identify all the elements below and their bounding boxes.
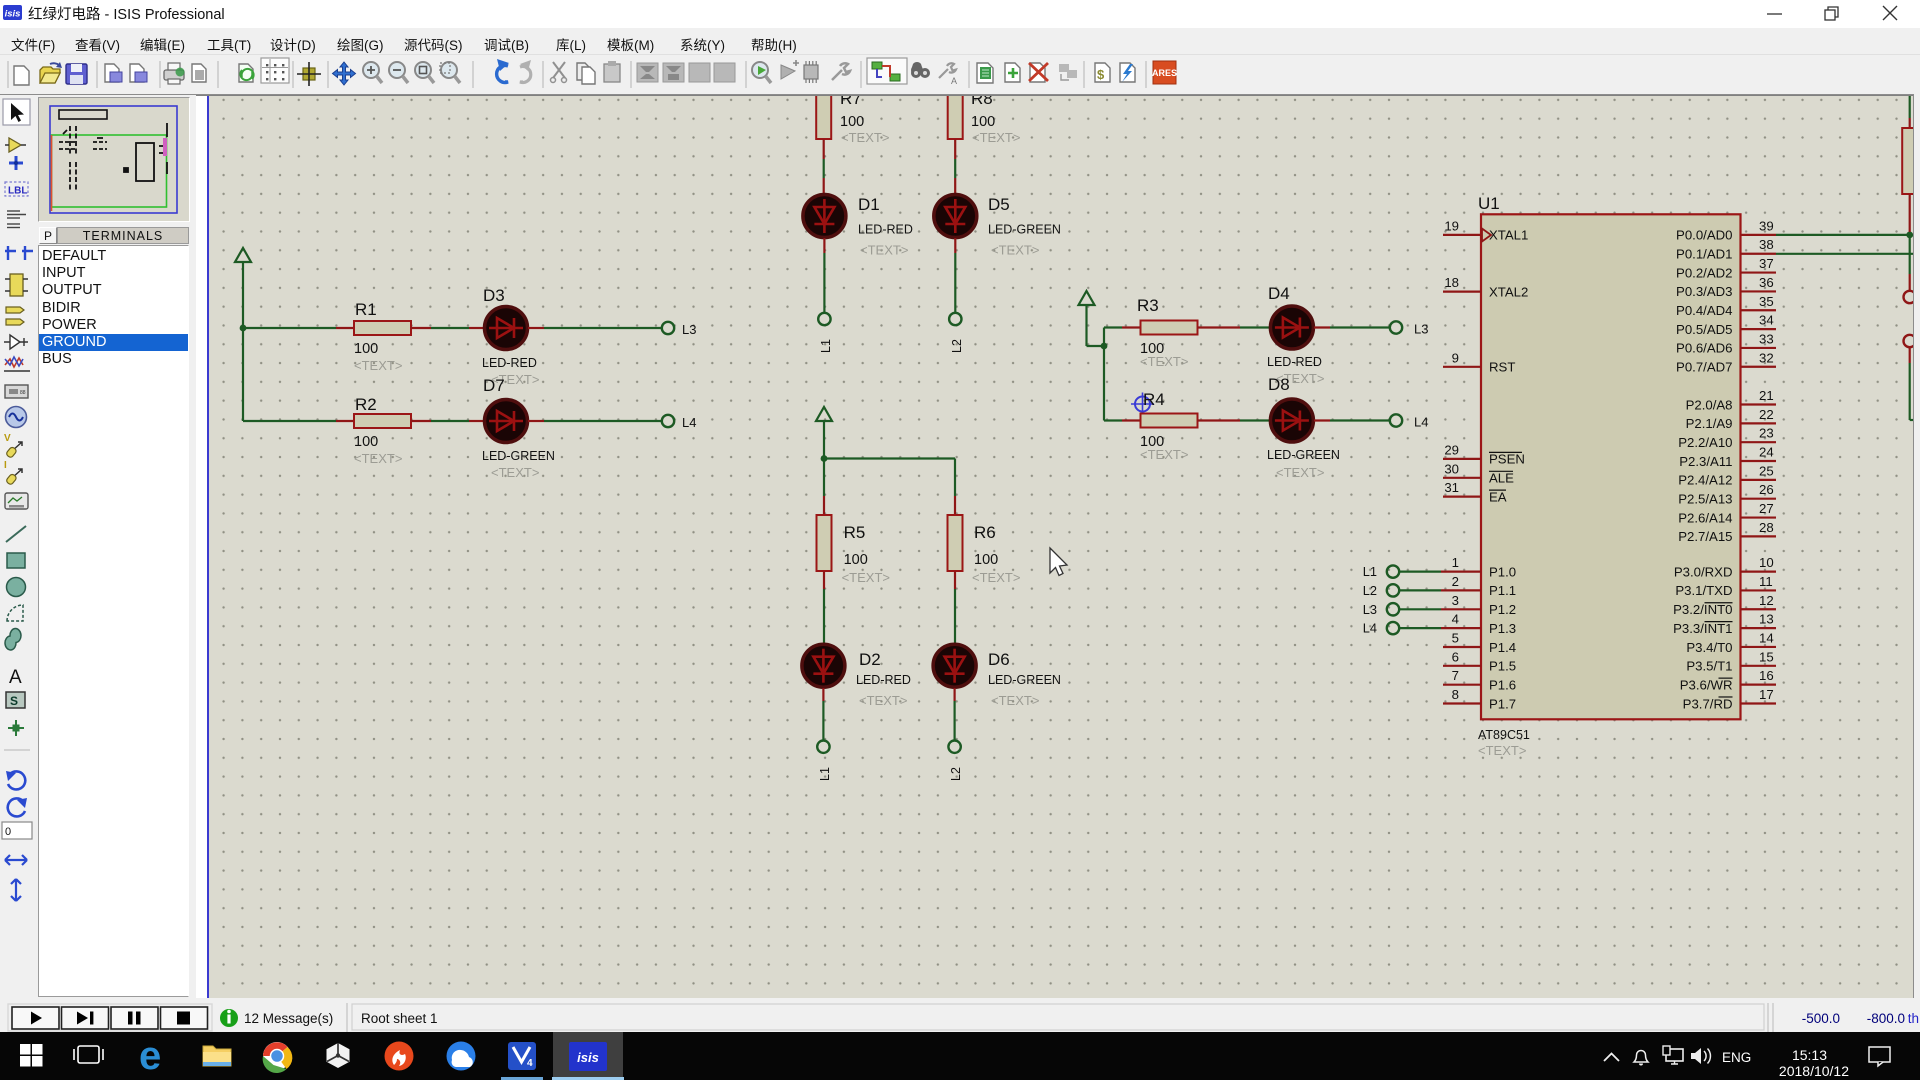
resistor R7 [816, 83, 889, 159]
wire (vertical) power node down to R2 row [243, 328, 336, 421]
svg-text:P3.3/INT1: P3.3/INT1 [1673, 621, 1732, 636]
wire node to R3/R4 rows [1104, 328, 1122, 421]
svg-text:15: 15 [1759, 649, 1774, 664]
svg-text:17: 17 [1759, 687, 1774, 702]
svg-text:3: 3 [1452, 593, 1459, 608]
svg-text:R1: R1 [355, 300, 377, 319]
U1 pin 27 P2.6/A14 [1678, 501, 1776, 525]
U1 pin 8 P1.7 [1443, 687, 1516, 711]
U1 pin 4 P1.3 / terminal L4 [1363, 612, 1516, 636]
svg-text:L1: L1 [1363, 564, 1377, 579]
resistor (top right, partially visible) [1902, 128, 1917, 194]
svg-text:12: 12 [1759, 593, 1774, 608]
U1 pin 35 P0.4/AD4 [1676, 294, 1776, 318]
svg-text:4: 4 [527, 1058, 533, 1069]
wire R2 to D7 [431, 420, 469, 422]
U1 pin 2 P1.1 / terminal L2 [1363, 574, 1516, 598]
svg-text:-500.0: -500.0 [1802, 1011, 1840, 1026]
svg-text:13: 13 [1759, 612, 1774, 627]
svg-text:<TEXT>: <TEXT> [354, 451, 402, 466]
wire R8 to D5 [954, 159, 956, 178]
svg-text:P1.1: P1.1 [1489, 583, 1516, 598]
svg-text:P1.7: P1.7 [1489, 696, 1516, 711]
svg-text:8: 8 [1452, 687, 1459, 702]
svg-text:D2: D2 [859, 650, 881, 669]
svg-text:I: I [4, 460, 7, 471]
svg-text:88: 88 [20, 390, 26, 396]
LED D8 (LED-GREEN) [1267, 375, 1340, 480]
power terminal (right section) [1079, 291, 1095, 346]
U1 pin 30 ALE [1443, 461, 1514, 485]
svg-text:2: 2 [1452, 574, 1459, 589]
wire R4 to D8 [1240, 419, 1270, 421]
wire R1 to D3 [431, 327, 469, 329]
svg-text:XTAL2: XTAL2 [1489, 284, 1528, 299]
svg-text:P2.6/A14: P2.6/A14 [1678, 510, 1732, 525]
svg-text:26: 26 [1759, 482, 1774, 497]
wire R5 to D2 [823, 589, 825, 644]
U1 pin 39 P0.0/AD0 [1676, 218, 1776, 242]
LED D6 (LED-GREEN) [933, 644, 1061, 708]
svg-text:<TEXT>: <TEXT> [991, 243, 1039, 258]
svg-text:S: S [10, 694, 18, 708]
svg-text:EA: EA [1489, 489, 1507, 504]
U1 pin 18 XTAL2 [1443, 275, 1528, 299]
terminal L3 (left section) [662, 322, 697, 337]
svg-text:L2: L2 [1363, 583, 1377, 598]
svg-text:7: 7 [1452, 668, 1459, 683]
resistor R1 [336, 300, 431, 373]
svg-text:LED-RED: LED-RED [482, 356, 537, 370]
svg-text:<TEXT>: <TEXT> [1140, 447, 1188, 462]
wire power to R1 [243, 327, 336, 329]
svg-text:<TEXT>: <TEXT> [1276, 465, 1324, 480]
svg-text:12 Message(s): 12 Message(s) [244, 1011, 333, 1026]
svg-text:P0.0/AD0: P0.0/AD0 [1676, 228, 1732, 243]
svg-text:LED-GREEN: LED-GREEN [988, 223, 1061, 237]
resistor R2 [336, 395, 431, 466]
svg-text:L4: L4 [1363, 621, 1377, 636]
svg-text:P2.4/A12: P2.4/A12 [1678, 473, 1732, 488]
svg-text:P2.0/A8: P2.0/A8 [1686, 397, 1733, 412]
junction (left power node) [240, 325, 247, 332]
wire D7 to terminal L4 [544, 420, 661, 422]
wire D6 to terminal L2 [953, 701, 955, 741]
U1 pin 31 EA [1443, 480, 1507, 504]
wire D8 to terminal L4 [1330, 419, 1390, 421]
U1 pin 5 P1.4 [1443, 631, 1516, 655]
svg-text:22: 22 [1759, 407, 1774, 422]
selection origin marker (blue) at R4 [1131, 393, 1154, 416]
svg-text:<TEXT>: <TEXT> [860, 243, 908, 258]
svg-text:L1: L1 [819, 339, 833, 353]
svg-text:<TEXT>: <TEXT> [1478, 743, 1526, 758]
svg-text:0: 0 [5, 826, 11, 838]
svg-text:<TEXT>: <TEXT> [1140, 354, 1188, 369]
svg-text:21: 21 [1759, 388, 1774, 403]
LED D2 (LED-RED) [802, 644, 911, 708]
U1 pin 28 P2.7/A15 [1678, 520, 1776, 544]
svg-text:$: $ [1097, 67, 1105, 82]
op-amp U1 body (AT89C51 microcontroller) [1478, 194, 1741, 758]
svg-text:R3: R3 [1137, 296, 1159, 315]
svg-text:U1: U1 [1478, 194, 1500, 213]
svg-text:<TEXT>: <TEXT> [491, 465, 539, 480]
svg-text:5: 5 [1452, 631, 1459, 646]
svg-text:4: 4 [1452, 612, 1459, 627]
svg-text:P0.3/AD3: P0.3/AD3 [1676, 284, 1732, 299]
svg-text:16: 16 [1759, 668, 1774, 683]
svg-text:100: 100 [971, 114, 995, 130]
svg-text:isis: isis [5, 9, 21, 20]
svg-text:<TEXT>: <TEXT> [972, 130, 1020, 145]
wire pin 38 to screen edge [1776, 253, 1920, 255]
U1 pin 10 P3.0/RXD [1674, 555, 1776, 579]
svg-text:P1.5: P1.5 [1489, 659, 1516, 674]
svg-text:红绿灯电路 - ISIS Professional: 红绿灯电路 - ISIS Professional [28, 6, 225, 23]
svg-text:P2.7/A15: P2.7/A15 [1678, 529, 1732, 544]
svg-text:D6: D6 [988, 650, 1010, 669]
svg-text:L2: L2 [950, 339, 964, 353]
U1 pin 21 P2.0/A8 [1686, 388, 1776, 412]
svg-text:11: 11 [1759, 574, 1773, 589]
terminal (right edge, upper) [1904, 291, 1916, 303]
svg-text:isis: isis [577, 1050, 599, 1065]
svg-text:P0.1/AD1: P0.1/AD1 [1676, 247, 1732, 262]
svg-text:L4: L4 [682, 415, 696, 430]
svg-text:D5: D5 [988, 195, 1010, 214]
wire resistor to node [1909, 194, 1911, 291]
junction (middle power node) [821, 455, 828, 462]
svg-text:L3: L3 [1363, 602, 1377, 617]
wire D1 to terminal L1 [823, 253, 825, 313]
svg-text:<TEXT>: <TEXT> [991, 693, 1039, 708]
svg-text:P0.7/AD7: P0.7/AD7 [1676, 360, 1732, 375]
svg-text:100: 100 [974, 552, 998, 568]
svg-text:R2: R2 [355, 395, 377, 414]
svg-text:29: 29 [1444, 442, 1459, 457]
U1 pin 23 P2.2/A10 [1678, 426, 1776, 450]
LED D1 (LED-RED) [803, 178, 913, 258]
U1 pin 16 P3.6/WR [1680, 668, 1776, 692]
svg-text:P0.4/AD4: P0.4/AD4 [1676, 303, 1732, 318]
wire lower terminal down [1910, 347, 1914, 420]
svg-text:25: 25 [1759, 463, 1774, 478]
U1 pin 14 P3.4/T0 [1686, 630, 1776, 654]
U1 pin 17 P3.7/RD [1683, 687, 1776, 711]
svg-text:36: 36 [1759, 275, 1774, 290]
U1 pin 13 P3.3/INT1 [1673, 612, 1776, 636]
wire D4 to terminal L3 [1330, 326, 1390, 328]
svg-text:31: 31 [1444, 480, 1459, 495]
wire top-right vertical [1909, 96, 1911, 128]
svg-text:PSEN: PSEN [1489, 452, 1525, 467]
svg-text:R5: R5 [844, 523, 866, 542]
U1 pin 3 P1.2 / terminal L3 [1363, 593, 1516, 617]
U1 pin 36 P0.3/AD3 [1676, 275, 1776, 299]
svg-text:P3.1/TXD: P3.1/TXD [1675, 583, 1732, 598]
svg-text:100: 100 [354, 341, 378, 357]
svg-text:100: 100 [844, 552, 868, 568]
svg-text:<TEXT>: <TEXT> [972, 570, 1020, 585]
svg-text:32: 32 [1759, 350, 1774, 365]
svg-text:P3.5/T1: P3.5/T1 [1686, 659, 1732, 674]
svg-text:1: 1 [1452, 555, 1459, 570]
svg-text:P1.2: P1.2 [1489, 602, 1516, 617]
svg-text:<TEXT>: <TEXT> [841, 130, 889, 145]
svg-text:D4: D4 [1268, 284, 1290, 303]
resistor R4 [1122, 390, 1240, 462]
svg-text:LED-RED: LED-RED [856, 673, 911, 687]
svg-text:ENG: ENG [1722, 1050, 1751, 1065]
svg-text:A: A [9, 667, 22, 688]
U1 pin 9 RST [1443, 350, 1515, 374]
svg-text:XTAL1: XTAL1 [1489, 228, 1528, 243]
svg-text:P0.6/AD6: P0.6/AD6 [1676, 341, 1732, 356]
svg-text:R7: R7 [840, 96, 862, 108]
wire R6 to D6 [954, 589, 956, 644]
svg-text:15:13: 15:13 [1792, 1047, 1827, 1063]
svg-text:R8: R8 [971, 96, 993, 108]
svg-text:AT89C51: AT89C51 [1478, 728, 1530, 742]
wire power node to R6 column [824, 459, 955, 497]
U1 pin 6 P1.5 [1443, 649, 1516, 673]
U1 pin 25 P2.4/A12 [1678, 463, 1776, 487]
svg-text:P1.3: P1.3 [1489, 621, 1516, 636]
svg-text:P1.0: P1.0 [1489, 564, 1516, 579]
power terminal (middle section) [816, 407, 832, 459]
svg-text:L2: L2 [949, 767, 963, 781]
svg-text:18: 18 [1444, 275, 1459, 290]
svg-text:28: 28 [1759, 520, 1774, 535]
svg-text:L4: L4 [1414, 415, 1428, 430]
svg-text:33: 33 [1759, 331, 1774, 346]
svg-text:LED-GREEN: LED-GREEN [988, 673, 1061, 687]
U1 pin 1 P1.0 / terminal L1 [1363, 555, 1516, 579]
svg-text:30: 30 [1444, 461, 1459, 476]
svg-text:P3.7/RD: P3.7/RD [1683, 696, 1733, 711]
svg-text:<TEXT>: <TEXT> [354, 358, 402, 373]
svg-text:34: 34 [1759, 313, 1774, 328]
wire D5 to terminal L2 [954, 253, 956, 313]
svg-text:LED-RED: LED-RED [858, 223, 913, 237]
svg-text:-800.0: -800.0 [1867, 1011, 1905, 1026]
U1 pin 7 P1.6 [1443, 668, 1516, 692]
wire D2 to terminal L1 [822, 701, 824, 741]
svg-text:10: 10 [1759, 555, 1774, 570]
svg-text:P2.5/A13: P2.5/A13 [1678, 492, 1732, 507]
svg-text:39: 39 [1759, 218, 1774, 233]
terminal L1 (bottom) [817, 741, 832, 782]
svg-text:ARES: ARES [1152, 68, 1177, 78]
U1 pin 15 P3.5/T1 [1686, 649, 1776, 673]
svg-text:37: 37 [1759, 256, 1774, 271]
terminal L3 (right section) [1390, 321, 1429, 336]
svg-text:9: 9 [1452, 350, 1459, 365]
svg-text:RST: RST [1489, 360, 1515, 375]
svg-text:100: 100 [840, 114, 864, 130]
svg-text:19: 19 [1444, 218, 1459, 233]
svg-text:L3: L3 [682, 322, 696, 337]
wire power node down to R5 [823, 459, 825, 497]
resistor R5 [817, 496, 891, 589]
svg-text:D1: D1 [858, 195, 880, 214]
terminal (right edge, lower) [1904, 335, 1916, 347]
U1 pin 38 P0.1/AD1 [1676, 237, 1776, 261]
svg-text:R6: R6 [974, 523, 996, 542]
U1 pin 33 P0.6/AD6 [1676, 331, 1776, 355]
svg-text:A: A [951, 76, 957, 86]
U1 pin 12 P3.2/INT0 [1673, 593, 1776, 617]
U1 pin 24 P2.3/A11 [1679, 445, 1776, 469]
svg-text:P3.4/T0: P3.4/T0 [1686, 640, 1732, 655]
svg-text:P3.0/RXD: P3.0/RXD [1674, 564, 1733, 579]
LED D5 (LED-GREEN) [934, 178, 1061, 258]
svg-text:P0.5/AD5: P0.5/AD5 [1676, 322, 1732, 337]
svg-text:th: th [1908, 1011, 1919, 1026]
svg-text:P0.2/AD2: P0.2/AD2 [1676, 265, 1732, 280]
resistor R8 [948, 83, 1021, 159]
svg-text:38: 38 [1759, 237, 1774, 252]
U1 pin 37 P0.2/AD2 [1676, 256, 1776, 280]
wire R3 to D4 [1240, 326, 1270, 328]
LED D7 (LED-GREEN) [469, 376, 555, 480]
svg-text:e: e [139, 1034, 161, 1078]
svg-text:ALE: ALE [1489, 471, 1514, 486]
junction (right power node) [1101, 343, 1108, 350]
resistor R6 [948, 496, 1021, 589]
power terminal (left section) [235, 248, 251, 328]
svg-text:LBL: LBL [8, 186, 27, 197]
U1 pin 26 P2.5/A13 [1678, 482, 1776, 506]
svg-text:R4: R4 [1143, 390, 1165, 409]
wire pin 39 to right net [1776, 234, 1910, 236]
svg-text:24: 24 [1759, 445, 1774, 460]
svg-text:V: V [4, 433, 11, 444]
U1 pin 22 P2.1/A9 [1686, 407, 1776, 431]
svg-text:LED-GREEN: LED-GREEN [1267, 448, 1340, 462]
terminal L4 (right section) [1390, 414, 1429, 429]
svg-text:2018/10/12: 2018/10/12 [1779, 1063, 1849, 1079]
mouse cursor [1050, 548, 1067, 576]
U1 pin 32 P0.7/AD7 [1676, 350, 1776, 374]
LED D4 (LED-RED) [1267, 284, 1330, 386]
svg-text:27: 27 [1759, 501, 1774, 516]
svg-text:14: 14 [1759, 630, 1774, 645]
U1 pin 29 PSEN [1443, 442, 1525, 466]
wire R7 to D1 [823, 159, 825, 178]
terminal L1 (top) [818, 313, 833, 353]
svg-text:D3: D3 [483, 286, 505, 305]
terminal L4 (left section) [662, 415, 697, 430]
svg-text:P2.1/A9: P2.1/A9 [1686, 416, 1733, 431]
svg-text:<TEXT>: <TEXT> [842, 570, 890, 585]
resistor R3 [1122, 296, 1240, 369]
svg-text:100: 100 [354, 434, 378, 450]
svg-text:L3: L3 [1414, 322, 1428, 337]
svg-text:LED-RED: LED-RED [1267, 355, 1322, 369]
terminal L2 (top) [949, 313, 964, 353]
svg-text:D8: D8 [1268, 375, 1290, 394]
svg-text:6: 6 [1452, 649, 1459, 664]
svg-text:<TEXT>: <TEXT> [859, 693, 907, 708]
svg-text:P2.2/A10: P2.2/A10 [1678, 435, 1732, 450]
svg-text:P3.2/INT0: P3.2/INT0 [1673, 602, 1732, 617]
svg-text:P1.4: P1.4 [1489, 640, 1516, 655]
svg-text:35: 35 [1759, 294, 1774, 309]
svg-text:P2.3/A11: P2.3/A11 [1679, 454, 1732, 469]
svg-text:Root sheet 1: Root sheet 1 [361, 1011, 438, 1026]
svg-text:LED-GREEN: LED-GREEN [482, 449, 555, 463]
junction (pin 39 net) [1906, 232, 1913, 239]
terminal L2 (bottom) [948, 741, 963, 782]
U1 pin 19 XTAL1 [1443, 218, 1528, 242]
svg-text:23: 23 [1759, 426, 1774, 441]
LED D3 (LED-RED) [469, 286, 544, 387]
wire D3 to terminal L3 [544, 327, 661, 329]
svg-text:P1.6: P1.6 [1489, 678, 1516, 693]
svg-text:L1: L1 [818, 767, 832, 781]
wire power to junction [1087, 345, 1105, 347]
U1 pin 11 P3.1/TXD [1675, 574, 1776, 598]
U1 pin 34 P0.5/AD5 [1676, 313, 1776, 337]
svg-text:D7: D7 [483, 376, 505, 395]
svg-text:P3.6/WR: P3.6/WR [1680, 677, 1733, 692]
